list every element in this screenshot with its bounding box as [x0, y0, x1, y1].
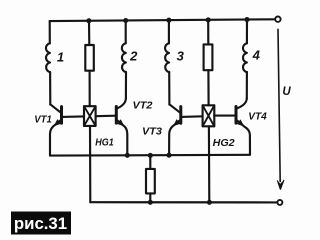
svg-text:HG1: HG1 — [95, 137, 114, 149]
svg-text:2: 2 — [129, 49, 138, 64]
svg-text:VT4: VT4 — [248, 111, 267, 123]
svg-text:VT2: VT2 — [133, 100, 153, 112]
svg-text:4: 4 — [252, 48, 261, 63]
svg-text:HG2: HG2 — [213, 137, 235, 149]
svg-text:1: 1 — [57, 50, 64, 65]
svg-text:рис.31: рис.31 — [14, 214, 67, 233]
svg-text:VT3: VT3 — [142, 126, 162, 138]
svg-text:VT1: VT1 — [34, 113, 52, 125]
svg-text:U: U — [282, 86, 291, 98]
svg-text:3: 3 — [177, 49, 185, 64]
